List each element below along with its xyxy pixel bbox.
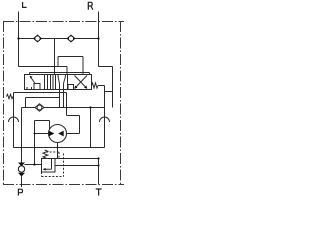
valve box2 blocked pair (53, 75, 56, 90)
wire tank line y147.5 (14, 147, 105, 149)
wire pilot line over valve y72.5 (30, 72, 90, 74)
relief pilot dash top (46, 152, 59, 159)
valve box1 blocked pair (45, 75, 48, 90)
wire x90.5 drop to y147.5 (90, 108, 92, 148)
wire pump bottom port / tank drop (57, 143, 59, 159)
wire valve middle drops (60, 90, 64, 108)
wire check to relief y164.5 (25, 164, 42, 166)
valve divider left (50, 75, 52, 90)
junction dot x34.5/y164.5 (33, 163, 35, 165)
enclosure border right (dash-dot) (120, 21, 122, 185)
wire x66.5 drop valve to jog (66, 93, 68, 116)
wire tank rung y158.5 (55, 158, 99, 160)
wire main y107.5 line (22, 107, 105, 109)
wire L port vertical (18, 12, 20, 67)
check valve CV3 inline (35, 104, 44, 111)
wire P port vertical (21, 177, 23, 188)
wire jog left drop (57, 57, 59, 67)
wire pilot drop right into valve (89, 73, 91, 75)
wire right pump jog (67, 116, 80, 134)
wire node between CVs down to valve top (54, 39, 56, 75)
junction dot x90.5 (89, 106, 91, 108)
junction dot T rung2 (97, 164, 99, 166)
wire valve bottom y92.5 (14, 92, 67, 94)
wire x104.5 vertical (104, 86, 106, 148)
valve divider right (67, 75, 69, 90)
wire pump left port (35, 133, 49, 135)
wire R port vertical (98, 12, 100, 67)
wire x25.5 drop (25, 98, 27, 108)
wire left pump jog (35, 121, 50, 130)
wire T port vertical (98, 159, 100, 185)
check valve CV4 vertical at P (18, 163, 25, 177)
wire pilot drop left into valve (29, 73, 31, 75)
junction dot L line / check line (17, 37, 19, 39)
pump (bidirectional) (49, 125, 67, 143)
wire x34.5 vertical (34, 121, 36, 165)
port label L (23, 2, 27, 7)
relief drain dash bottom (42, 172, 64, 177)
relief drain dash right (63, 154, 65, 177)
junction dot pump left (34, 133, 36, 135)
port label R (88, 2, 93, 10)
wire x21.5 vertical to bottom check (21, 108, 23, 163)
wire spring to x104.5 (98, 85, 105, 87)
port label T (96, 189, 102, 196)
valve box1 small block (34, 84, 40, 90)
junction dot pump bottom (57, 147, 59, 149)
wire port drop to valve (66, 67, 68, 75)
valve box1 port stubs (27, 87, 32, 90)
tank-crossing arc right (100, 117, 110, 122)
wire x13.5 vertical (left feed) (13, 93, 15, 148)
wire tank rung y165.5 (55, 165, 99, 167)
wire x112.5 vertical down (112, 67, 114, 108)
enclosure border bottom (dash-dot) (3, 184, 124, 186)
valve box3 crossed arrows (75, 76, 88, 89)
relief valve spring (43, 150, 48, 158)
wire valve bottom y97.5 (26, 97, 60, 99)
valve left spring w (7, 94, 14, 98)
junction dot R line / check line (97, 37, 99, 39)
check valve CV2 (67, 35, 76, 43)
wire top check-valve line (19, 38, 99, 40)
valve box2 funnel (58, 75, 66, 90)
relief valve arrow (43, 159, 52, 171)
enclosure border left (dash-dot) (3, 21, 5, 185)
enclosure border top (dash-dot) (3, 21, 124, 23)
port label P (18, 189, 22, 195)
rung y91.5 (105, 91, 113, 93)
wire jog y56.5 (58, 56, 83, 58)
valve box1 arrow (30, 76, 35, 84)
wire jog right drop into valve (82, 57, 84, 75)
wire horizontal y66.5 from L line (19, 66, 68, 68)
wire R corner y66.5 (99, 66, 113, 68)
junction dot T rung1 (97, 157, 99, 159)
valve spring right (92, 83, 99, 88)
tank-crossing arc left (9, 117, 19, 122)
check valve CV1 (33, 35, 42, 43)
relief valve RV body (42, 159, 56, 173)
directional valve DV body (25, 75, 92, 90)
valve box3 small block (68, 85, 74, 90)
